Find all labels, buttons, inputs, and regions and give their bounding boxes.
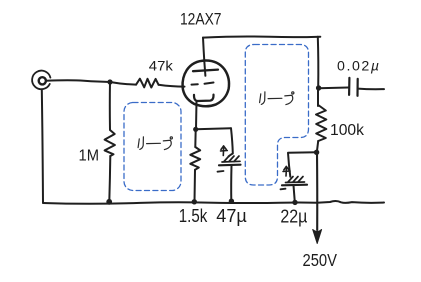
svg-text:12AX7: 12AX7 bbox=[180, 10, 222, 29]
svg-text:100k: 100k bbox=[330, 122, 365, 139]
capacitor C2 0.02u plates bbox=[348, 78, 350, 95]
arrow B+ 250V bbox=[313, 230, 322, 244]
node C1 ground bbox=[229, 199, 234, 204]
wire B+ down bbox=[316, 152, 318, 230]
resistor R2 1M lead top bbox=[109, 82, 111, 130]
label loop right bbox=[260, 92, 294, 105]
loop box right bbox=[245, 45, 308, 186]
node cathode junction bbox=[193, 127, 198, 132]
wire node to R4 bbox=[317, 88, 319, 106]
wire R1 to tube grid bbox=[159, 85, 185, 87]
tube V1 envelope bbox=[183, 60, 229, 106]
wire ground bus bbox=[43, 201, 384, 204]
wire C1 to ground bbox=[230, 165, 232, 201]
label loop left bbox=[138, 137, 172, 150]
wire R4 to B+ node bbox=[317, 141, 318, 153]
capacitor C3 22u bottom plate bbox=[282, 184, 307, 187]
capacitor C3 22u plus sign bbox=[283, 167, 290, 177]
wire C3 to ground bbox=[294, 185, 295, 202]
cathode lead bbox=[195, 101, 198, 129]
wire input shield down bbox=[42, 89, 43, 203]
input jack J1 outer ring bbox=[32, 71, 50, 90]
capacitor C1 47u minus sign bbox=[218, 170, 224, 173]
wire C1 top lead bbox=[229, 128, 233, 156]
resistor R3 1.5k lead bottom bbox=[194, 170, 197, 202]
svg-text:47µ: 47µ bbox=[216, 206, 247, 226]
svg-text:250V: 250V bbox=[303, 250, 338, 270]
loop box left bbox=[124, 103, 181, 191]
input jack J1 inner tip bbox=[39, 77, 46, 84]
resistor R2 1M lead bottom bbox=[109, 156, 110, 202]
node R3 ground bbox=[192, 199, 197, 204]
capacitor C1 47u bottom plate bbox=[219, 164, 241, 167]
resistor R4 100k bbox=[316, 105, 326, 141]
resistor R1 47k bbox=[136, 79, 158, 88]
resistor R3 1.5k bbox=[190, 147, 200, 170]
resistor R3 1.5k lead top bbox=[194, 129, 196, 147]
capacitor C3 22u minus sign bbox=[281, 188, 286, 191]
capacitor C1 47u top plate hatched bbox=[222, 156, 240, 162]
node 1M ground bbox=[106, 199, 112, 205]
capacitor C1 47u plus sign bbox=[221, 146, 228, 156]
node C3 ground bbox=[292, 200, 297, 205]
node plate output bbox=[316, 85, 321, 90]
wire B+ node to C3 top bbox=[288, 152, 317, 177]
tube V1 plate lead bbox=[203, 38, 205, 76]
capacitor C3 22u top plate hatched bbox=[286, 177, 305, 183]
svg-text:1M: 1M bbox=[79, 147, 100, 164]
tube V1 plate bbox=[193, 70, 218, 72]
resistor R2 1M bbox=[105, 130, 115, 156]
svg-text:22µ: 22µ bbox=[280, 206, 307, 226]
wire right rail down bbox=[317, 37, 320, 88]
tube V1 grid dashes bbox=[192, 83, 198, 85]
wire node to R1 bbox=[110, 82, 136, 85]
svg-text:1.5k: 1.5k bbox=[179, 206, 208, 226]
svg-text:0.02µ: 0.02µ bbox=[337, 58, 379, 74]
wire cathode node to C1 top bbox=[196, 128, 231, 129]
wire top rail bbox=[203, 36, 320, 37]
node B+ tap bbox=[314, 150, 319, 155]
node grid junction bbox=[107, 79, 112, 84]
svg-text:47k: 47k bbox=[149, 57, 174, 73]
wire jack to grid node bbox=[46, 80, 110, 82]
tube V1 cathode bbox=[194, 95, 214, 101]
wire C2 to output bbox=[358, 88, 384, 91]
wire node to C2 bbox=[319, 87, 349, 90]
